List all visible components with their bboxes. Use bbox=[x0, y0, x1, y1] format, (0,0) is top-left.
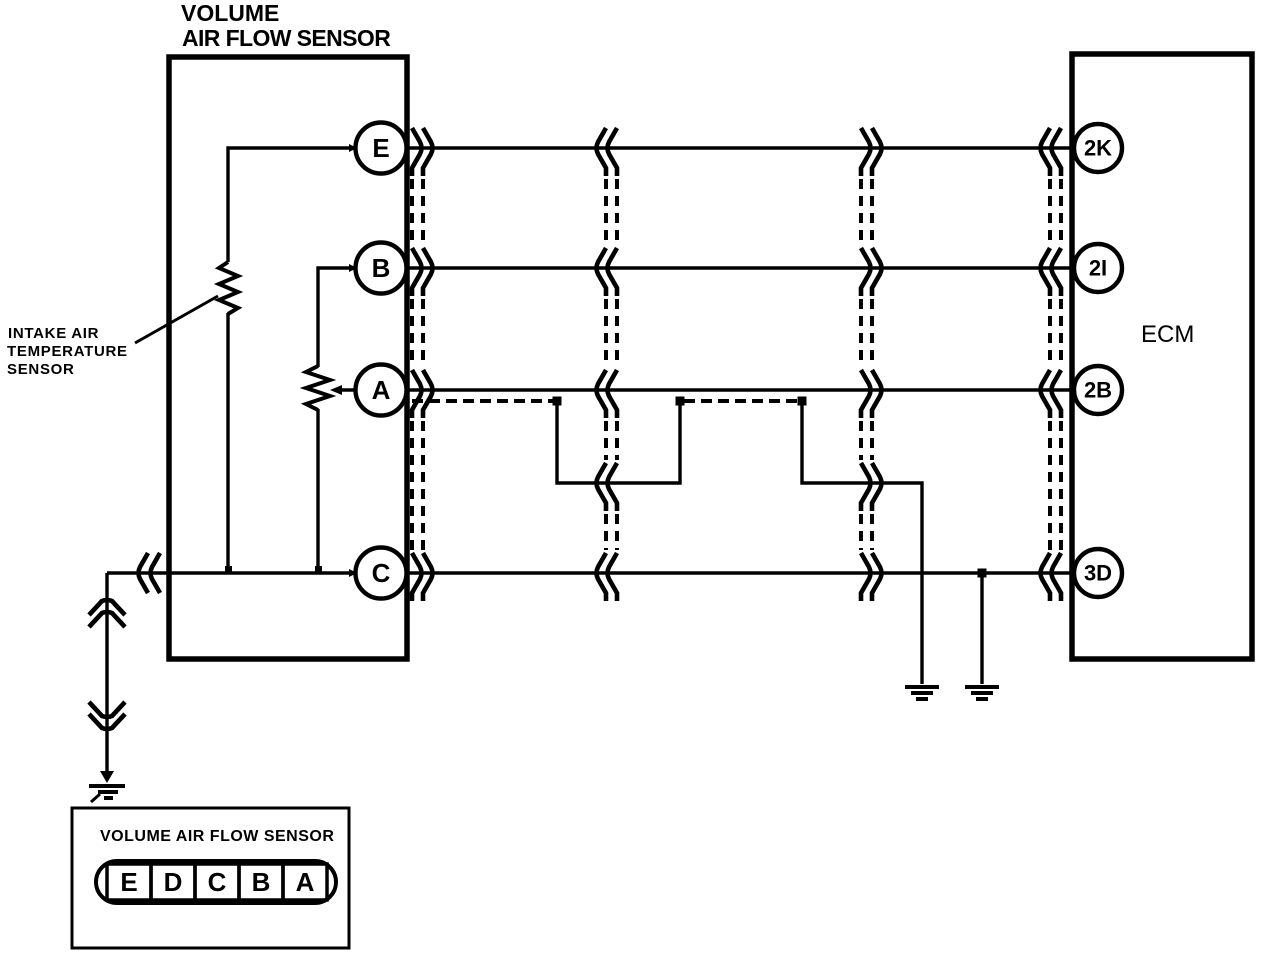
shield drain dashed wire segment 1 bbox=[412, 399, 553, 403]
svg-text:E: E bbox=[372, 133, 389, 163]
sensor pin C bbox=[356, 548, 407, 599]
junction square J1 bbox=[553, 397, 562, 406]
ECM pin 3D bbox=[1074, 549, 1122, 597]
ground wire from wire C corner bbox=[105, 573, 108, 779]
arrowhead wire into pin E bbox=[349, 144, 357, 152]
ground branch wire from 3D row bbox=[980, 573, 983, 684]
connector cavity B bbox=[239, 864, 283, 900]
wire pin B internal (horizontal+vertical) bbox=[318, 268, 356, 367]
shield break chevrons S4 at y=390 bbox=[1041, 370, 1062, 418]
svg-text:B: B bbox=[372, 253, 391, 283]
svg-text:C: C bbox=[372, 558, 391, 588]
svg-text:AIR FLOW SENSOR: AIR FLOW SENSOR bbox=[182, 25, 391, 51]
ECM pin 2K bbox=[1074, 124, 1122, 172]
leader line to R1 bbox=[135, 296, 218, 343]
volume air flow sensor box bbox=[169, 57, 407, 659]
chevrons on wire C left of sensor box bbox=[139, 553, 161, 593]
svg-text:2B: 2B bbox=[1084, 378, 1112, 403]
connector cavity C bbox=[195, 864, 239, 900]
svg-text:E: E bbox=[120, 867, 137, 897]
potentiometer wiper arrow to pin A bbox=[330, 385, 358, 395]
shield break chevrons S1 at y=573 bbox=[412, 553, 433, 601]
drain wire jog down segment 2 to ground bbox=[802, 401, 922, 684]
wire below R1 to wire C bbox=[226, 313, 229, 573]
arrowhead wire into pin B bbox=[349, 264, 357, 272]
junction square on 3D wire bbox=[978, 569, 987, 578]
shield break chevrons S4 at y=148 bbox=[1041, 128, 1062, 176]
svg-text:2K: 2K bbox=[1084, 136, 1112, 161]
shield break chevrons S2 at y=390 bbox=[597, 370, 618, 418]
shield break chevrons S2 at y=268 bbox=[597, 248, 618, 296]
junction square J2 bbox=[676, 397, 685, 406]
sensor pin E bbox=[356, 123, 407, 174]
ECM pin 2I bbox=[1074, 244, 1122, 292]
junction square J3 bbox=[798, 397, 807, 406]
shield break chevrons S2 at y=148 bbox=[597, 128, 618, 176]
drain wire jog down segment 1 bbox=[557, 401, 680, 483]
sensor pin B bbox=[356, 243, 407, 294]
shield dashed lines S4 bbox=[1050, 179, 1061, 550]
svg-text:D: D bbox=[164, 867, 183, 897]
resistor R2 potentiometer element bbox=[306, 366, 330, 410]
svg-text:2I: 2I bbox=[1089, 256, 1107, 281]
svg-text:3D: 3D bbox=[1084, 561, 1112, 586]
connector detail box bbox=[72, 808, 349, 948]
ground G1 bbox=[89, 771, 125, 802]
chevrons (up) on ground wire bbox=[89, 600, 125, 627]
shield break chevrons S4 at y=268 bbox=[1041, 248, 1062, 296]
shield drain dashed wire segment 2 bbox=[684, 399, 798, 403]
svg-text:VOLUME AIR FLOW SENSOR: VOLUME AIR FLOW SENSOR bbox=[100, 828, 334, 845]
ground G3 (3D row branch) bbox=[965, 687, 999, 699]
svg-text:ECM: ECM bbox=[1141, 321, 1194, 348]
svg-text:A: A bbox=[372, 375, 391, 405]
label VOLUME AIR FLOW SENSOR (top) bbox=[181, 0, 391, 51]
junction temp-sensor wire on wire C bbox=[225, 566, 232, 574]
svg-text:INTAKE AIR: INTAKE AIR bbox=[8, 325, 99, 342]
shield break chevrons S1 at y=148 bbox=[412, 128, 433, 176]
shield break chevrons S2 at y=483 bbox=[597, 463, 618, 511]
label INTAKE AIR TEMPERATURE SENSOR bbox=[7, 325, 128, 378]
resistor R1 intake air temperature sensor bbox=[219, 262, 238, 314]
chevrons (down) on ground wire bbox=[89, 702, 125, 729]
shield break chevrons S1 at y=390 bbox=[412, 370, 433, 418]
shield break chevrons S3 at y=483 bbox=[861, 463, 882, 511]
sensor pin A bbox=[356, 365, 407, 416]
shield break chevrons S1 at y=268 bbox=[412, 248, 433, 296]
shield dashed lines S2 bbox=[606, 179, 617, 550]
svg-text:A: A bbox=[296, 867, 315, 897]
shield break chevrons S3 at y=268 bbox=[861, 248, 882, 296]
ground G2 (drain wire) bbox=[905, 687, 939, 699]
shield break chevrons S2 at y=573 bbox=[597, 553, 618, 601]
svg-text:C: C bbox=[208, 867, 227, 897]
arrowhead wire into pin C bbox=[349, 569, 357, 577]
connector cavity D bbox=[151, 864, 195, 900]
wire A row (pin A to ECM 2B) bbox=[406, 388, 1073, 391]
connector cavity E bbox=[107, 864, 151, 900]
svg-text:SENSOR: SENSOR bbox=[7, 361, 75, 378]
connector body (stadium) bbox=[96, 861, 336, 903]
svg-text:VOLUME: VOLUME bbox=[181, 0, 279, 26]
ECM pin 2B bbox=[1074, 366, 1122, 414]
shield break chevrons S3 at y=148 bbox=[861, 128, 882, 176]
wire C row (pin C to ECM 3D) bbox=[406, 571, 1073, 574]
shield break chevrons S3 at y=573 bbox=[861, 553, 882, 601]
shield break chevrons S3 at y=390 bbox=[861, 370, 882, 418]
svg-text:B: B bbox=[252, 867, 271, 897]
wire below R2 to wire C bbox=[316, 409, 319, 573]
shield break chevrons S4 at y=573 bbox=[1041, 553, 1062, 601]
shield dashed lines S1 bbox=[412, 179, 423, 550]
svg-text:TEMPERATURE: TEMPERATURE bbox=[7, 343, 128, 360]
junction potentiometer wire on wire C bbox=[315, 566, 322, 574]
ECM box bbox=[1072, 54, 1252, 659]
wire pin C internal (to left, exits box) bbox=[107, 571, 356, 574]
shield dashed lines S3 bbox=[861, 179, 872, 550]
wire pin E internal (horizontal+vertical) bbox=[228, 148, 356, 262]
wire B row (pin B to ECM 2I) bbox=[406, 266, 1073, 269]
connector cavity A bbox=[283, 864, 327, 900]
wire E row (pin E to ECM 2K) bbox=[406, 146, 1073, 149]
